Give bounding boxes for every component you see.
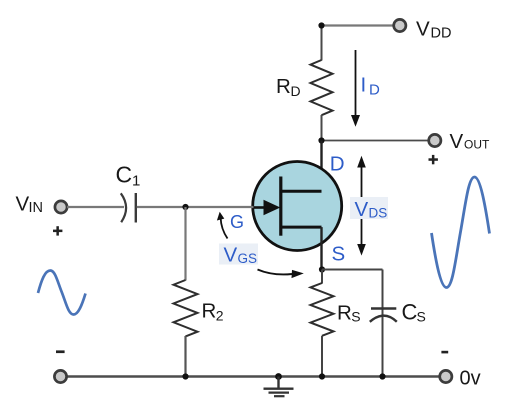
resistor RD (311, 60, 333, 115)
node: S junction (319, 266, 325, 272)
background box for VDS label (350, 197, 388, 219)
svg-text:2: 2 (216, 307, 224, 323)
wire: source lead (transistor down to S node) (320, 227, 322, 269)
capacitor C1 straight plate (135, 193, 137, 223)
resistor R2 (174, 280, 198, 336)
wire: S node to RS (321, 270, 323, 284)
node: R2 rail junction (182, 373, 188, 379)
svg-text:DS: DS (369, 205, 388, 220)
wire: drain lead (VOUT node down into transistor) (320, 141, 322, 193)
node: RS rail junction (319, 373, 325, 379)
svg-text:V: V (224, 244, 238, 267)
wire: VOUT node to VOUT terminal (322, 140, 430, 142)
svg-text:V: V (450, 130, 464, 153)
left sine wave (38, 271, 86, 315)
svg-text:S: S (417, 309, 426, 325)
svg-text:OUT: OUT (464, 138, 490, 152)
minus sign bottom right (441, 351, 448, 354)
minus sign bottom left (56, 350, 65, 353)
arrow VDS (double headed vertical) (361, 165, 363, 247)
capacitor CS straight plate (371, 307, 396, 309)
svg-text:S: S (332, 242, 346, 265)
background box for VGS label (219, 244, 258, 265)
arrow ID (drain current, pointing down) (355, 50, 357, 116)
transistor Q1 source arm (281, 226, 322, 229)
node: top junction (318, 22, 324, 28)
svg-text:0v: 0v (460, 367, 481, 389)
wire: gate node down to R2 (184, 207, 186, 281)
svg-text:1: 1 (132, 173, 140, 190)
bottom rail wire (67, 375, 441, 377)
arrow from VGS up to gate (221, 218, 228, 239)
wire: RS to bottom rail (321, 336, 323, 377)
wire: C1 to gate node (137, 206, 186, 208)
transistor Q1 (JFET, common source) body circle (253, 162, 342, 251)
node: CS rail junction (379, 373, 385, 379)
svg-text:D: D (330, 153, 345, 176)
transistor Q1 gate bar (279, 177, 282, 236)
svg-text:IN: IN (29, 200, 44, 216)
svg-text:I: I (361, 74, 367, 97)
svg-text:R: R (337, 302, 352, 325)
terminal bottom left (54, 370, 66, 382)
svg-text:R: R (202, 300, 217, 323)
terminal 0v (440, 370, 452, 382)
node: ground rail junction (275, 373, 282, 380)
svg-text:GS: GS (238, 251, 258, 266)
svg-text:V: V (355, 198, 369, 221)
resistor RS (311, 283, 334, 336)
svg-text:V: V (16, 193, 30, 216)
svg-text:DD: DD (431, 26, 452, 42)
right sine wave (432, 177, 490, 288)
plus sign at VOUT (429, 158, 438, 161)
wire: RD to VOUT node (321, 115, 323, 141)
svg-text:D: D (369, 82, 380, 99)
capacitor CS curved plate (370, 316, 397, 322)
wire: S node right to CS (322, 269, 383, 271)
wire: R2 to bottom rail (184, 336, 186, 377)
wire: gate node to transistor gate (186, 206, 254, 208)
svg-text:D: D (291, 83, 301, 99)
wire: down through CS (382, 270, 384, 377)
wire: VIN terminal to C1 (67, 206, 124, 208)
node: gate junction (182, 204, 188, 210)
svg-text:R: R (276, 75, 291, 98)
capacitor C1 curved plate (121, 193, 126, 222)
svg-text:S: S (351, 309, 360, 325)
plus sign at VIN (53, 230, 62, 233)
svg-text:C: C (116, 161, 133, 187)
ground symbol (277, 377, 279, 389)
node: VOUT junction (318, 137, 324, 143)
wire: top node down to RD (321, 26, 323, 61)
terminal VDD (394, 19, 406, 31)
svg-text:G: G (230, 212, 244, 232)
transistor Q1 gate lead and arrowhead (253, 206, 267, 209)
curved arrow from VGS to source (258, 270, 293, 275)
wire: top node to VDD terminal (322, 24, 395, 26)
svg-text:V: V (416, 17, 430, 40)
transistor Q1 drain arm (281, 190, 322, 193)
svg-text:C: C (402, 299, 418, 324)
terminal VOUT (429, 134, 441, 146)
terminal VIN (55, 201, 67, 213)
